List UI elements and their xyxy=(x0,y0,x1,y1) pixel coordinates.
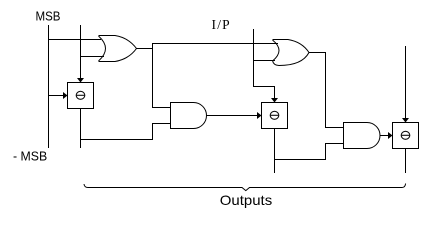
svg-text:MSB: MSB xyxy=(36,8,61,23)
svg-text:- MSB: - MSB xyxy=(13,148,47,163)
svg-text:I/P: I/P xyxy=(212,17,230,32)
svg-text:Outputs: Outputs xyxy=(220,192,272,208)
